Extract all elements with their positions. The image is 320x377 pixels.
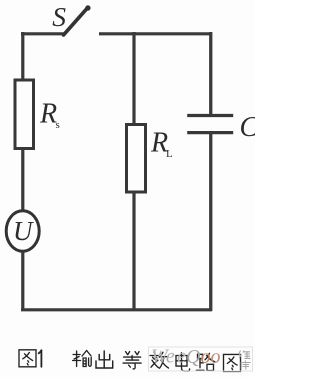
wire middle vertical lower bbox=[132, 192, 135, 311]
wire right vertical upper bbox=[209, 32, 212, 116]
caption char tu2 again (diagram) bbox=[224, 354, 241, 371]
watermark char wei2 bbox=[239, 351, 251, 359]
caption char xiao4 (equivalent-2) bbox=[150, 352, 169, 368]
caption char chu1 (output-2) bbox=[96, 351, 113, 368]
svg-text:S: S bbox=[52, 1, 66, 32]
caption char shu1 (output-1) bbox=[73, 351, 92, 367]
svg-text:C: C bbox=[240, 112, 256, 143]
caption digit 1 bbox=[39, 350, 42, 367]
svg-text:U: U bbox=[13, 216, 34, 246]
source U label bbox=[13, 216, 34, 246]
capacitor C top plate bbox=[187, 114, 233, 117]
caption char dian4 (circuit-1) bbox=[176, 353, 190, 371]
caption char tu2 (figure) bbox=[19, 350, 36, 367]
resistor Rs body bbox=[15, 80, 34, 149]
svg-text:s: s bbox=[56, 119, 60, 131]
wire right vertical lower bbox=[209, 133, 212, 312]
svg-text:L: L bbox=[166, 148, 173, 160]
watermark WeeQoo bbox=[151, 346, 221, 369]
svg-text:R: R bbox=[39, 99, 57, 130]
svg-text:o: o bbox=[211, 346, 221, 368]
wire top-left horizontal bbox=[21, 32, 65, 35]
svg-text:o: o bbox=[201, 346, 211, 368]
caption char deng3 (equivalent-1) bbox=[123, 352, 141, 369]
watermark light frame bbox=[149, 347, 253, 371]
wire bottom horizontal bbox=[21, 308, 212, 311]
switch S blade bbox=[64, 5, 91, 35]
capacitor C bottom plate bbox=[187, 131, 233, 134]
svg-text:We: We bbox=[151, 346, 175, 368]
switch label S bbox=[52, 1, 66, 32]
resistor RL label bbox=[150, 128, 173, 161]
svg-text:Q: Q bbox=[186, 346, 201, 368]
resistor RL body bbox=[127, 125, 146, 193]
caption char lu4 (circuit-2) bbox=[197, 353, 215, 370]
wire middle vertical upper bbox=[132, 32, 135, 125]
svg-text:e: e bbox=[177, 346, 186, 368]
wire left vertical middle bbox=[21, 149, 24, 212]
source U circle bbox=[6, 211, 39, 251]
wire left vertical upper bbox=[21, 32, 24, 80]
watermark char ku4 bbox=[241, 361, 251, 370]
wire left vertical lower bbox=[21, 251, 24, 311]
capacitor C label bbox=[240, 112, 259, 143]
wire top-right horizontal bbox=[99, 32, 212, 35]
resistor Rs label bbox=[39, 99, 60, 132]
